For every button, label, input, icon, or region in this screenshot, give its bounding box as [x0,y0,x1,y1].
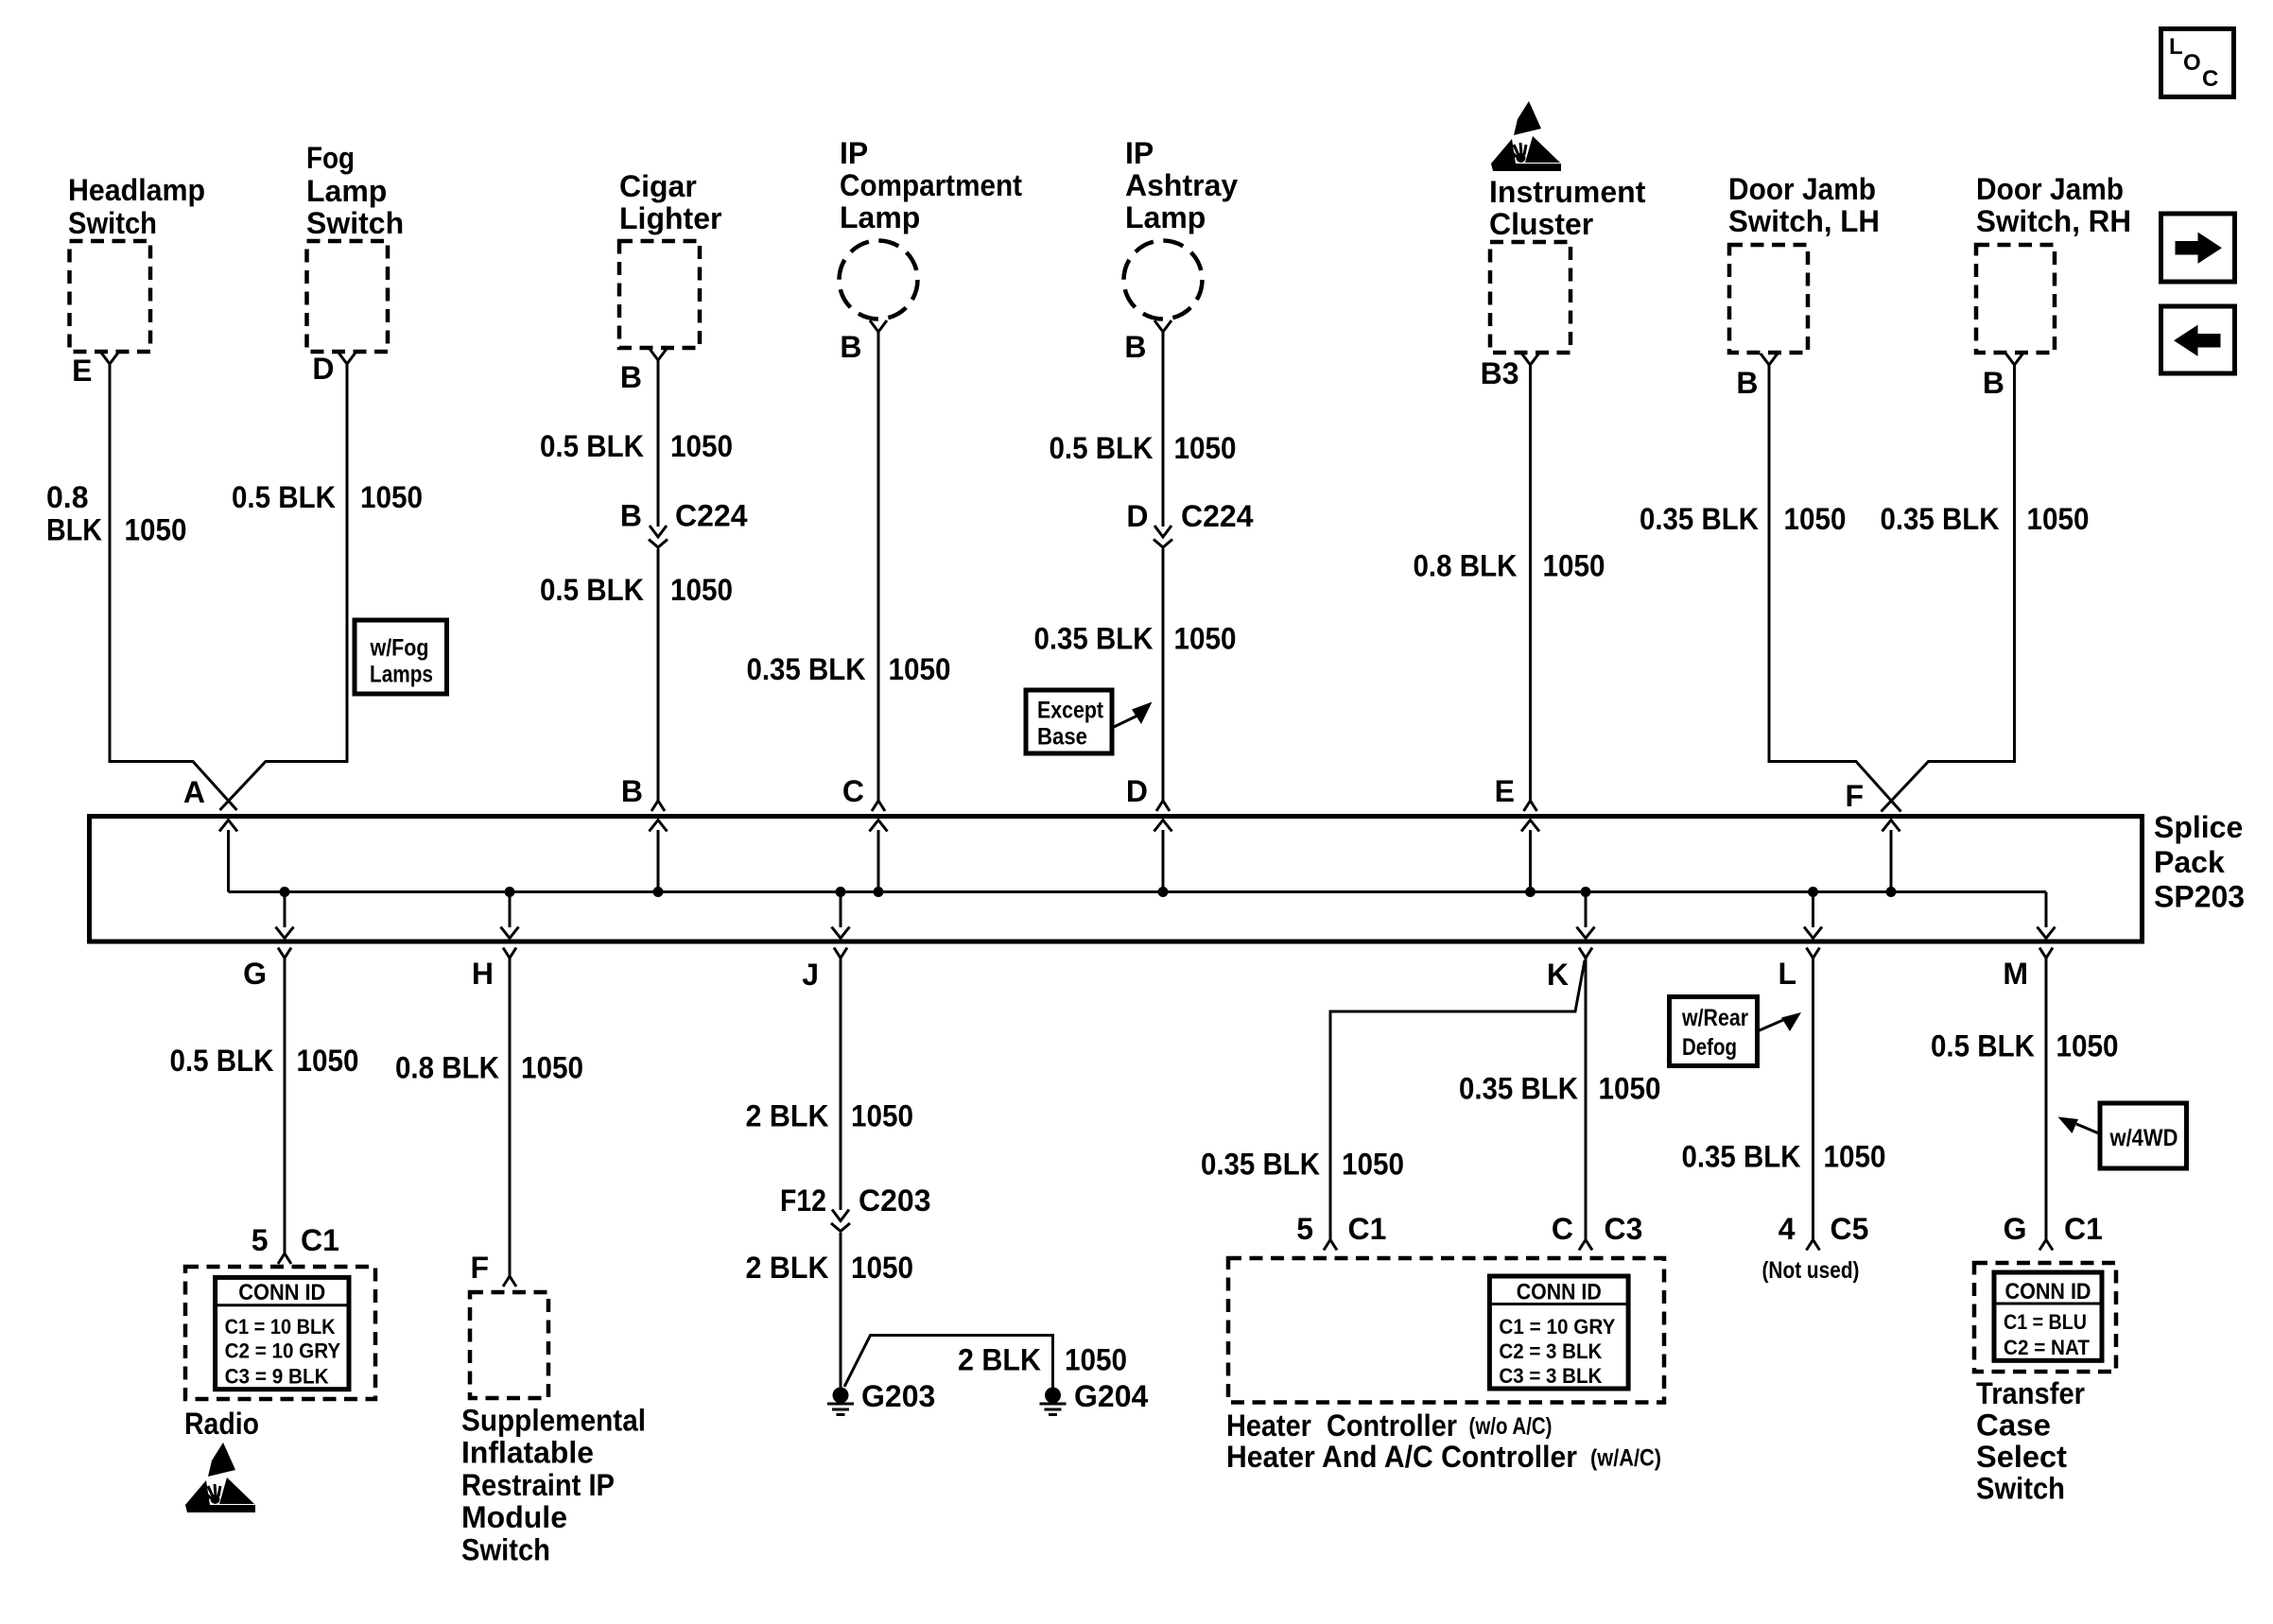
svg-text:B: B [1124,330,1146,364]
svg-text:0.35 BLK: 0.35 BLK [1640,502,1759,536]
wire: C203 to ground G203, 2 BLK 1050 [840,1233,842,1388]
pin G / C1 (transfer case select switch) [2004,1212,2103,1251]
splice arrow B [657,830,660,892]
label: 0.35 BLK | 1050 (ashtray lower) [1034,622,1237,656]
pin C / C3 (heater controller) [1552,1212,1643,1251]
svg-text:F12: F12 [780,1183,826,1218]
label: 0.35 BLK | 1050 (L) [1682,1140,1886,1174]
svg-text:C3 = 9 BLK: C3 = 9 BLK [225,1365,329,1389]
component: IP Ashtray Lamp [1124,136,1239,332]
svg-text:1050: 1050 [1342,1148,1404,1182]
splice arrow M [2045,892,2048,928]
svg-text:(w/o A/C): (w/o A/C) [1469,1413,1553,1440]
svg-text:Case: Case [1976,1408,2051,1443]
label: 0.35 BLK | 1050 (K main) [1459,1072,1661,1106]
label: 0.5 BLK | 1050 (cigar lower) [540,573,733,607]
splice arrow D [1162,830,1165,892]
svg-text:C: C [842,774,864,808]
svg-text:Splice: Splice [2154,810,2243,844]
svg-text:0.8 BLK: 0.8 BLK [1414,549,1518,583]
svg-text:C1 = 10 BLK: C1 = 10 BLK [225,1315,336,1339]
svg-text:1050: 1050 [1599,1072,1661,1106]
svg-text:F: F [470,1251,489,1285]
svg-text:1050: 1050 [670,429,733,463]
svg-text:1050: 1050 [670,573,733,607]
pin F (SIR module switch) [470,1251,516,1287]
svg-text:Instrument: Instrument [1489,175,1646,209]
note box: Except Base with pointer arrow [1026,690,1153,753]
node J fork below splice [802,948,847,993]
wire: branch to ground G204, 2 BLK 1050 [844,1336,1053,1388]
svg-text:Heater Controller: Heater Controller [1226,1408,1457,1443]
svg-text:1050: 1050 [1174,431,1237,465]
svg-text:1050: 1050 [521,1051,583,1085]
svg-text:F: F [1845,779,1864,813]
label: 0.8 BLK | 1050 (instrument cluster) [1414,549,1605,583]
svg-text:0.35 BLK: 0.35 BLK [1881,502,2000,536]
svg-text:J: J [802,958,819,992]
svg-text:Door Jamb: Door Jamb [1728,172,1876,206]
svg-text:Switch, LH: Switch, LH [1728,204,1880,238]
wire: door jamb switch LH B to splice F, 0.35 BLK 1050 [1769,365,1901,812]
svg-text:2 BLK: 2 BLK [746,1099,829,1133]
svg-text:5: 5 [252,1223,269,1257]
wire: cigar lighter B to connector C224, 0.5 BLK 1050 [657,360,660,527]
wire: fog lamp switch D to splice A, circuit 1050 [220,364,348,810]
svg-text:Inflatable: Inflatable [461,1436,594,1470]
svg-text:Door Jamb: Door Jamb [1976,172,2124,206]
svg-text:B: B [621,774,643,808]
splice arrow F [1890,830,1893,892]
label: B | C224 [620,499,748,533]
svg-text:Switch, RH: Switch, RH [1976,204,2131,238]
svg-text:C2 = 3 BLK: C2 = 3 BLK [1499,1339,1602,1363]
svg-text:E: E [1495,774,1515,808]
label: 0.35 BLK | 1050 (LH) [1640,502,1847,536]
svg-text:Module: Module [461,1500,567,1534]
svg-text:0.35 BLK: 0.35 BLK [1201,1148,1320,1182]
splice arrow H [509,892,512,928]
svg-text:A: A [183,775,205,809]
svg-text:1050: 1050 [2056,1029,2119,1063]
svg-text:CONN ID: CONN ID [2005,1279,2091,1304]
svg-text:0.35 BLK: 0.35 BLK [1682,1140,1801,1174]
svg-text:w/Fog: w/Fog [370,635,429,662]
left-arrow legend box [2161,306,2235,373]
label: 0.5 BLK | 1050 (M) [1931,1029,2119,1063]
svg-text:0.5 BLK: 0.5 BLK [1050,431,1154,465]
label: 0.5 BLK | 1050 (fog lamp wire) [232,480,423,514]
svg-text:C1 = BLU: C1 = BLU [2004,1310,2087,1334]
node L fork below splice [1778,948,1819,992]
wire: splice K to heater controller C3 pin C, 0.35 BLK 1050 [1585,959,1588,1240]
svg-text:L: L [2169,34,2183,60]
node E fork at splice [1495,774,1537,811]
splice arrow G [284,892,286,928]
svg-text:CONN ID: CONN ID [1517,1280,1602,1305]
svg-text:B: B [620,360,642,394]
label: 0.5 BLK | 1050 (ashtray upper) [1050,431,1237,465]
svg-text:G: G [243,957,267,991]
svg-text:0.5 BLK: 0.5 BLK [540,573,644,607]
svg-text:E: E [72,354,92,388]
component: IP Compartment Lamp [840,136,1023,332]
svg-text:C224: C224 [1181,499,1254,533]
svg-text:Cluster: Cluster [1489,207,1593,241]
splice arrow L [1812,892,1814,928]
svg-text:Pack: Pack [2154,845,2225,879]
node B fork at splice [621,774,665,811]
label: F12 | C203 [780,1183,931,1218]
svg-text:IP: IP [1125,136,1154,170]
svg-text:1050: 1050 [851,1251,913,1285]
svg-text:1050: 1050 [851,1099,913,1133]
label: Heater And A/C Controller (w/A/C) [1226,1440,1661,1474]
svg-text:1050: 1050 [1784,502,1847,536]
junction dot L [1808,887,1818,897]
node F (X splice joint) [1845,779,1864,813]
svg-text:1050: 1050 [297,1044,359,1078]
wire: instrument cluster B3 to splice E, 0.8 BLK 1050 [1529,365,1532,801]
svg-text:C3 = 3 BLK: C3 = 3 BLK [1499,1364,1602,1388]
svg-text:w/4WD: w/4WD [2109,1125,2178,1151]
svg-text:Heater And A/C Controller: Heater And A/C Controller [1226,1440,1577,1474]
svg-text:Switch: Switch [1976,1472,2065,1506]
svg-text:1050: 1050 [125,513,187,547]
svg-text:H: H [472,957,494,991]
label: Splice Pack SP203 [2154,810,2245,914]
svg-text:C2 = 10 GRY: C2 = 10 GRY [225,1339,341,1363]
svg-text:C5: C5 [1831,1212,1869,1246]
svg-text:C: C [1552,1212,1573,1246]
svg-text:D: D [312,352,334,386]
svg-text:C224: C224 [675,499,748,533]
junction dot J [836,887,846,897]
svg-text:Select: Select [1976,1440,2067,1474]
svg-text:Base: Base [1037,724,1087,751]
splice pack SP203 body [90,817,2143,942]
svg-text:0.35 BLK: 0.35 BLK [1459,1072,1578,1106]
svg-text:Switch: Switch [461,1532,550,1566]
svg-text:C1: C1 [1348,1212,1387,1246]
svg-text:Lighter: Lighter [619,201,721,235]
component: Radio (dashed) with CONN ID table [185,1267,375,1399]
svg-text:G: G [2004,1212,2027,1246]
right-arrow legend box [2161,214,2235,282]
svg-text:G203: G203 [861,1379,935,1413]
svg-text:(w/A/C): (w/A/C) [1590,1445,1661,1472]
svg-text:B: B [840,330,861,364]
label: Supplemental Inflatable Restraint IP Module Switch [461,1404,646,1567]
svg-text:1050: 1050 [2027,502,2090,536]
svg-text:B: B [1983,366,2004,400]
svg-text:Ashtray: Ashtray [1125,168,1238,202]
wire: door jamb switch RH B to splice F, 0.35 BLK 1050 [1882,365,2015,812]
node H fork below splice [472,948,516,992]
svg-text:C1: C1 [301,1223,339,1257]
label: 2 BLK | 1050 (J lower) [746,1251,914,1285]
node G fork below splice [243,948,291,992]
component: Instrument Cluster [1489,175,1646,365]
node C fork at splice [842,774,885,811]
wire: K branch to heater controller C1 pin 5, 0.35 BLK 1050 [1330,960,1585,1240]
ESD sensitivity symbol (radio) [185,1443,255,1512]
svg-text:Headlamp: Headlamp [68,173,205,207]
svg-text:2 BLK: 2 BLK [958,1343,1041,1377]
ground G204 [1040,1379,1149,1415]
label: 0.35 BLK | 1050 (compartment lamp) [747,652,951,686]
svg-text:B: B [620,499,642,533]
node K fork below splice [1547,948,1592,993]
node D fork at splice [1126,774,1170,811]
svg-text:Lamps: Lamps [370,662,433,688]
svg-text:C1: C1 [2064,1212,2103,1246]
wire: splice H to SIR module switch, 0.8 BLK 1050 [509,959,512,1277]
inline connector C224 pin B [649,526,668,547]
svg-text:D: D [1126,774,1148,808]
svg-text:B3: B3 [1481,356,1519,390]
wire: splice G to radio, 0.5 BLK 1050 [284,959,286,1254]
LOC reference box [2161,29,2234,97]
junction dot F [1886,887,1897,897]
svg-text:Switch: Switch [306,206,404,240]
ground G203 [827,1379,935,1415]
svg-text:0.5 BLK: 0.5 BLK [232,480,336,514]
pin 4 / C5 (not used) [1778,1212,1869,1251]
svg-text:SP203: SP203 [2154,880,2245,914]
svg-text:BLK: BLK [46,513,102,547]
svg-text:Radio: Radio [184,1407,259,1441]
ESD sensitivity symbol (instrument cluster) [1491,101,1561,171]
svg-text:C2 = NAT: C2 = NAT [2004,1336,2091,1359]
svg-text:Defog: Defog [1682,1034,1737,1061]
svg-text:Switch: Switch [68,206,157,240]
svg-text:4: 4 [1778,1212,1796,1246]
junction dot K [1581,887,1591,897]
pin 5 / C1 (heater controller) [1296,1212,1386,1251]
splice arrow A [227,830,230,892]
label: 0.35 BLK | 1050 (K branch) [1201,1148,1404,1182]
svg-text:1050: 1050 [1174,622,1237,656]
component: Fog Lamp Switch [306,141,404,364]
label: Heater Controller (w/o A/C) [1226,1408,1553,1443]
svg-text:G204: G204 [1074,1379,1148,1413]
wire: splice J to connector C203, 2 BLK 1050 [840,959,842,1211]
svg-text:B: B [1736,366,1758,400]
svg-text:D: D [1126,499,1148,533]
junction dot H [505,887,515,897]
splice arrow J [840,892,842,928]
svg-text:5: 5 [1296,1212,1313,1246]
component: Door Jamb Switch, LH [1728,172,1880,365]
svg-text:1050: 1050 [1065,1343,1127,1377]
component: Transfer Case Select Switch (dashed) with CONN ID table [1974,1263,2116,1372]
component: Headlamp Switch [68,173,205,364]
svg-text:O: O [2183,50,2201,76]
svg-text:C203: C203 [859,1183,931,1218]
wire: C224 to splice D, 0.35 BLK 1050 [1162,549,1165,802]
label: Transfer Case Select Switch [1976,1376,2085,1506]
component: Door Jamb Switch, RH [1976,172,2131,365]
note box: w/Fog Lamps [355,620,447,694]
svg-text:0.5 BLK: 0.5 BLK [540,429,644,463]
splice arrow C [877,830,880,892]
wire: headlamp switch E to splice A, circuit 1050 [110,364,237,810]
junction dot D [1158,887,1169,897]
svg-text:IP: IP [840,136,868,170]
pin 5 / C1 (radio) [252,1223,339,1264]
wire: splice L to connector C5 pin 4, 0.35 BLK 1050 [1812,959,1814,1240]
component: Heater Controller (dashed) with CONN ID table [1228,1258,1664,1403]
svg-text:(Not used): (Not used) [1762,1257,1860,1284]
wire: splice M to transfer case select switch G, 0.5 BLK 1050 [2045,959,2048,1240]
note box: w/4WD with pointer arrow [2058,1103,2187,1168]
svg-text:Cigar: Cigar [619,169,697,203]
wire: IP compartment lamp B to splice C, 0.35 BLK 1050 [877,332,880,801]
node M fork below splice [2003,948,2053,992]
label: 2 BLK | 1050 (G204 branch) [958,1343,1127,1377]
svg-text:0.8 BLK: 0.8 BLK [395,1051,499,1085]
svg-text:1050: 1050 [1543,549,1605,583]
junction dot C [874,887,884,897]
inline connector C203 cavity F12 [831,1210,850,1232]
wire: C224 to splice B, 0.5 BLK 1050 [657,549,660,802]
splice arrow E [1529,830,1532,892]
svg-text:K: K [1547,958,1569,992]
svg-text:C3: C3 [1605,1212,1643,1246]
splice pack internal bus [229,890,2047,893]
svg-text:1050: 1050 [889,652,951,686]
svg-text:Supplemental: Supplemental [461,1404,646,1438]
svg-text:C: C [2202,66,2218,92]
svg-text:0.8: 0.8 [46,480,88,514]
inline connector C224 pin D [1154,526,1172,547]
junction dot E [1525,887,1536,897]
svg-text:0.5 BLK: 0.5 BLK [170,1044,274,1078]
svg-text:Restraint IP: Restraint IP [461,1468,615,1502]
label: D | C224 [1126,499,1253,533]
svg-text:Fog: Fog [306,141,355,175]
label: 0.5 BLK | 1050 (cigar upper) [540,429,733,463]
note box: w/Rear Defog with pointer arrow [1670,997,1802,1066]
svg-text:Lamp: Lamp [840,200,920,234]
svg-text:M: M [2003,957,2028,991]
svg-text:Lamp: Lamp [1125,200,1206,234]
label: 0.8 BLK / 1050 [46,480,187,547]
svg-text:C1 = 10 GRY: C1 = 10 GRY [1499,1315,1615,1339]
label: 0.5 BLK | 1050 (radio wire) [170,1044,359,1078]
svg-text:w/Rear: w/Rear [1681,1005,1748,1031]
svg-text:2 BLK: 2 BLK [746,1251,829,1285]
wire: ashtray lamp B to connector C224, 0.5 BLK 1050 [1162,332,1165,527]
svg-text:Lamp: Lamp [306,174,387,208]
svg-text:0.5 BLK: 0.5 BLK [1931,1029,2035,1063]
svg-text:L: L [1778,957,1796,991]
svg-text:0.35 BLK: 0.35 BLK [747,652,866,686]
component: SIR IP Module Switch (dashed box) [470,1292,548,1398]
svg-text:0.35 BLK: 0.35 BLK [1034,622,1154,656]
junction dot B [653,887,664,897]
splice arrow K [1585,892,1588,928]
svg-text:Transfer: Transfer [1976,1376,2085,1410]
junction dot G [280,887,290,897]
svg-text:Compartment: Compartment [840,168,1022,202]
svg-text:1050: 1050 [360,480,423,514]
component: Cigar Lighter [619,169,721,360]
svg-text:Except: Except [1037,698,1104,724]
label: 0.35 BLK | 1050 (RH) [1881,502,2090,536]
label: 2 BLK | 1050 (J upper) [746,1099,914,1133]
svg-text:CONN ID: CONN ID [238,1280,325,1305]
svg-text:1050: 1050 [1824,1140,1886,1174]
node A (X splice joint) [183,775,205,809]
label: 0.8 BLK | 1050 (SIR wire) [395,1051,583,1085]
